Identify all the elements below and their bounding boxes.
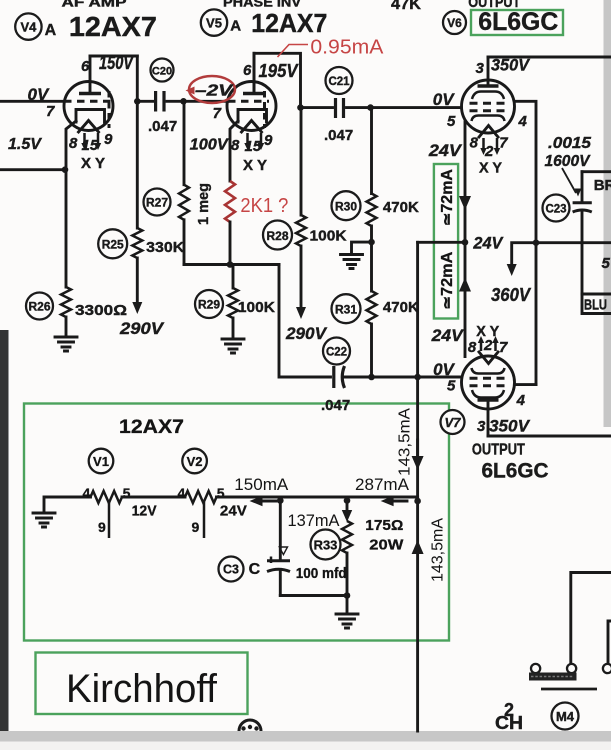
wire 24V node to 143.5mA rail [418,241,466,244]
svg-text:M4: M4 [556,709,575,724]
chassis line [541,688,597,691]
svg-text:330K: 330K [146,239,184,256]
wire left edge feedback [0,168,66,171]
tube V4 12AX7 [64,56,113,150]
svg-text:3300Ω: 3300Ω [75,302,127,319]
wire 150V rail down to C20 junction and R25 [136,56,139,228]
svg-text:R27: R27 [146,196,168,210]
junction 24V node [462,239,469,246]
svg-text:24V: 24V [431,326,465,345]
svg-text:5: 5 [447,378,456,395]
svg-text:A: A [45,22,57,39]
svg-text:100K: 100K [310,228,347,245]
wire to V5 grid [184,100,229,103]
svg-text:12AX7: 12AX7 [251,8,327,38]
wire heater bus mid [122,496,185,499]
wire bus to C22 [279,265,331,378]
svg-text:9: 9 [192,519,200,535]
svg-text:143,5mA: 143,5mA [397,408,414,476]
svg-text:1.5V: 1.5V [8,136,42,153]
wire C21 to V6 grid [371,106,462,109]
svg-text:3: 3 [477,418,486,435]
resistor R31 470K [332,294,361,323]
label box BR (transformer lead) [582,170,611,173]
svg-text:143,5mA: 143,5mA [430,518,447,582]
scanner black bar left edge [0,330,9,731]
wire 360V stub [512,243,536,264]
svg-text:≃72mA: ≃72mA [439,169,456,226]
wire V4 plate to 150V rail [90,55,137,58]
ground (R33/C3) [336,614,358,628]
junction V5 plate node [297,104,304,111]
svg-text:0V: 0V [433,360,455,379]
svg-text:X Y: X Y [479,160,502,177]
svg-text:V7: V7 [445,415,462,430]
svg-text:2: 2 [483,337,493,354]
svg-text:137mA: 137mA [288,512,340,530]
svg-text:12AX7: 12AX7 [119,417,184,438]
svg-text:6L6GC: 6L6GC [478,8,558,36]
wire terminal 3 corner [608,621,611,663]
wire cathode bottom bus [184,263,279,266]
svg-text:≃72mA: ≃72mA [439,252,456,310]
ground (R26) [55,337,77,351]
terminal lugs [531,664,540,673]
svg-text:9: 9 [264,132,273,149]
junction R31 / C22 out [368,374,375,381]
wire V6 cathode rail down to V7 [464,122,467,357]
capacitor C20 [151,59,174,82]
svg-text:5: 5 [217,485,225,501]
svg-text:AF AMP: AF AMP [62,0,127,10]
partial connector circle (cropped) [239,720,261,731]
svg-text:3: 3 [476,60,485,77]
junction bottom bus / ground [344,592,351,599]
svg-text:X Y: X Y [81,155,105,172]
tube V7 6L6GC [462,336,515,436]
svg-text:100V: 100V [190,137,229,154]
wire R25 to 290V [136,258,139,302]
ground (bias divider) [341,255,363,269]
wire V6 plate to supply [488,56,611,59]
wire input to V4 grid [0,100,64,103]
svg-text:4: 4 [83,485,91,501]
resistor 2K1 (red annotated) V5 cathode [230,121,238,181]
svg-text:9: 9 [104,131,113,148]
junction cathode / input bus [62,166,69,173]
svg-text:24V: 24V [220,504,247,520]
wire heater bus left to ground [44,497,91,511]
label box BLU (transformer lead) [582,294,611,314]
green box annotation ~72mA rail [434,164,458,319]
svg-text:R31: R31 [335,303,357,317]
designator M4 [552,703,579,730]
resistor R27 1 meg [144,189,171,216]
svg-text:BR: BR [594,177,611,194]
svg-text:V2: V2 [187,454,203,469]
svg-text:.047: .047 [321,397,350,414]
svg-text:4: 4 [518,113,528,130]
svg-text:.047: .047 [324,127,353,144]
junction plate/C20 [134,98,141,105]
svg-text:Kirchhoff: Kirchhoff [66,667,218,711]
svg-text:12V: 12V [132,504,157,520]
tube V1 designator [89,449,114,474]
svg-text:C: C [249,561,261,578]
heater V1 (pins 4-5) [91,491,122,503]
wire 143.5mA rail [416,242,419,731]
svg-text:8: 8 [231,137,240,154]
svg-text:15: 15 [82,137,99,154]
svg-text:C22: C22 [326,347,347,359]
svg-text:1600V: 1600V [545,153,591,170]
wire V7 plate to supply [488,435,611,438]
svg-text:150mA: 150mA [234,475,289,494]
svg-text:OUTPUT: OUTPUT [472,442,525,459]
svg-text:6: 6 [243,62,252,79]
ground (R29) [222,339,244,353]
junction cathode bus / R29 [227,261,234,268]
tube V6 6L6GC [462,57,515,155]
bottom gray divider bar [0,731,611,742]
current arrow down (72mA) [459,196,471,210]
resistor R28 100K [263,221,292,250]
svg-text:.0015: .0015 [548,135,592,152]
svg-text:5: 5 [447,113,456,130]
svg-text:470K: 470K [383,299,419,316]
svg-text:7: 7 [499,339,508,356]
svg-text:47K: 47K [391,0,421,13]
svg-text:290V: 290V [119,319,165,338]
resistor R25 330K [98,229,127,258]
svg-text:A: A [230,18,241,35]
svg-text:2K1 ?: 2K1 ? [240,195,288,217]
tube V5 designator [201,9,227,35]
resistor R33 175ohm 20W [311,530,341,560]
junction heater bus / R33 [344,497,351,504]
junction rail / heater bus [414,498,421,505]
tube V6 designator [443,11,466,34]
tube V5 12AX7 [227,53,276,150]
wire R28 to 290V rail [300,246,303,307]
svg-text:R25: R25 [102,238,124,252]
svg-text:100K: 100K [238,299,275,316]
svg-text:287mA: 287mA [355,475,410,494]
tube V2 designator [182,449,207,474]
wire heater bus right [217,496,418,499]
capacitor C23 [543,195,570,222]
wire C3/R33 bottom bus [280,594,347,597]
svg-text:2: 2 [484,143,494,160]
junction heater bus / C3 [277,497,284,504]
svg-text:175Ω: 175Ω [365,517,403,534]
heater V2 (pins 4-5) [185,491,216,503]
junction rail / V7 grid wire [414,374,421,381]
svg-text:R33: R33 [314,538,338,553]
svg-text:12AX7: 12AX7 [69,11,157,42]
svg-text:R26: R26 [28,300,50,314]
svg-text:X Y: X Y [243,157,267,174]
svg-text:150V: 150V [99,53,135,73]
svg-text:C21: C21 [328,76,350,88]
svg-text:1 meg: 1 meg [195,183,212,225]
svg-text:360V: 360V [491,285,532,305]
svg-text:R29: R29 [198,298,220,312]
svg-text:4: 4 [516,392,526,409]
svg-text:R30: R30 [335,200,357,214]
svg-text:C20: C20 [152,66,172,78]
capacitor C22 [323,338,350,365]
current arrow up 143.5mA [412,540,424,554]
wire V5 plate to 195V rail [254,53,301,107]
svg-text:24V: 24V [428,141,463,160]
svg-text:20W: 20W [369,537,404,554]
green box Kirchhoff loop region [24,404,449,641]
svg-text:4: 4 [178,485,186,501]
svg-text:V6: V6 [447,16,462,30]
svg-text:7: 7 [46,103,55,120]
wire C22 to V7 grid [372,376,462,379]
svg-text:290V: 290V [285,324,328,343]
capacitor C3 100mfd [279,501,282,560]
svg-text:0V: 0V [433,90,455,109]
annotation red circled -2V [189,76,235,103]
svg-text:24V: 24V [472,234,504,253]
svg-text:C23: C23 [545,204,566,216]
svg-text:0V: 0V [28,85,50,104]
svg-text:470K: 470K [383,199,419,216]
tube V4 designator [15,13,41,39]
current arrow up (72mA) [459,278,471,292]
svg-text:7: 7 [213,105,222,122]
pin 9 stub V2 [203,502,206,538]
wire bias to ground [352,242,372,252]
svg-text:CH: CH [495,713,523,733]
tube V7 designator [441,410,465,434]
svg-text:8: 8 [468,339,477,356]
green box label Kirchhoff [36,653,248,715]
svg-text:195V: 195V [259,61,300,81]
svg-text:V1: V1 [93,454,109,469]
terminal strip body [529,673,577,681]
wire to output transformer [536,241,611,244]
svg-text:100 mfd: 100 mfd [296,565,347,582]
junction R30/R31 bias [370,226,373,291]
svg-text:–2V: –2V [195,83,234,100]
wire V4 cathode down [66,121,76,287]
ground (heater) [33,513,55,527]
svg-text:9: 9 [98,519,106,535]
capacitor C21 [326,67,353,94]
svg-text:0.95mA: 0.95mA [310,37,384,59]
current arrow down 143.5mA [416,440,419,458]
svg-text:BLU: BLU [584,298,607,314]
resistor R26 3300ohm [26,293,53,320]
svg-text:R28: R28 [266,229,288,243]
pin 9 stub V1 [108,502,111,538]
junction right rail 24V [533,239,540,246]
svg-text:350V: 350V [489,417,531,436]
svg-text:7: 7 [499,135,508,152]
svg-text:8: 8 [69,135,78,152]
resistor R30 470K [332,191,361,220]
svg-text:V4: V4 [20,20,37,35]
svg-text:.047: .047 [148,118,177,135]
svg-text:V5: V5 [206,16,222,31]
svg-text:5: 5 [123,485,131,501]
svg-text:C3: C3 [223,563,239,577]
wire V7 pin4 to right rail [515,383,537,386]
svg-text:6: 6 [81,58,90,75]
junction C20 / V5 grid / R27 [180,98,187,105]
junction C21 out [367,104,374,111]
resistor R29 100K [195,290,223,318]
wire V6 pin4 to right rail [515,101,537,384]
svg-text:6L6GC: 6L6GC [482,460,549,483]
scanner gray strip right edge [604,0,611,427]
svg-text:8: 8 [470,135,479,152]
svg-text:15: 15 [245,138,262,155]
svg-text:5: 5 [602,255,611,272]
green box label 6L6GC (V6) [471,10,563,35]
wire speaker terminal feed [571,573,611,664]
